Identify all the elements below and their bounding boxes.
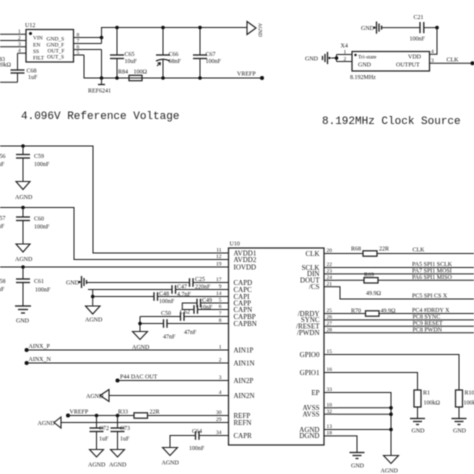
node AINX_P net label and wire to pin 1 <box>25 344 229 352</box>
svg-text:AGND: AGND <box>15 195 33 201</box>
svg-text:R68: R68 <box>351 247 361 253</box>
capacitor C67 <box>193 26 222 80</box>
ground AGND (group 2) <box>15 244 33 263</box>
svg-text:R10: R10 <box>465 390 474 396</box>
U12 pin 7 GND_F <box>47 38 102 48</box>
svg-text:25: 25 <box>327 308 333 314</box>
svg-text:R84: R84 <box>118 70 128 76</box>
wire C21 to X4 VDD <box>424 26 439 54</box>
U10 pin 1 AIN1P <box>216 345 254 355</box>
svg-text:3: 3 <box>431 58 434 64</box>
U12 pin 2 EN <box>0 35 40 48</box>
svg-text:C59: C59 <box>34 154 44 160</box>
op-amp U10 ADC body <box>229 242 325 446</box>
svg-text:C65: C65 <box>125 52 135 58</box>
resistor R69 49.9ohm in DOUT row <box>364 273 474 297</box>
wire /RESET row <box>337 321 474 327</box>
svg-text:4: 4 <box>431 49 434 55</box>
node VREFP net label on REFP row <box>66 410 134 418</box>
svg-text:PC4 #DRDY X: PC4 #DRDY X <box>412 308 450 314</box>
svg-text:C25: C25 <box>195 277 205 283</box>
svg-text:15: 15 <box>327 349 333 355</box>
resistor R83 label (cropped at left edge) <box>0 57 12 69</box>
ground GND (left of C21) <box>361 22 382 34</box>
svg-text:16: 16 <box>327 367 333 373</box>
U10 pin 7 CAPBP <box>216 311 256 321</box>
node AGND port arrow on pin 4 <box>86 390 229 402</box>
svg-text:C57: C57 <box>0 216 6 222</box>
svg-text:VDD: VDD <box>408 55 422 61</box>
wire CLK row <box>337 253 363 255</box>
svg-text:GND_F: GND_F <box>47 42 65 48</box>
svg-text:OUTPUT: OUTPUT <box>396 63 420 69</box>
svg-text:R1: R1 <box>423 390 430 396</box>
capacitor C56 label fragment (cropped) <box>0 154 6 168</box>
svg-text:28: 28 <box>327 327 333 333</box>
svg-text:C66: C66 <box>169 52 179 58</box>
U12 pin 1 VIN <box>0 29 43 42</box>
svg-text:10uF: 10uF <box>0 162 5 168</box>
svg-text:AGND: AGND <box>162 461 180 467</box>
svg-text:PA5 SPI1 SCLK: PA5 SPI1 SCLK <box>412 262 453 268</box>
U10 pin 2 AIN1N <box>216 358 255 368</box>
svg-text:68nF: 68nF <box>169 59 182 65</box>
wire AVDD2 net (group 2) <box>0 206 229 260</box>
svg-text:100nF: 100nF <box>410 37 426 43</box>
svg-text:100nF: 100nF <box>35 288 51 294</box>
ground tick under junction with REF6241 text <box>88 78 111 95</box>
svg-text:GND: GND <box>358 63 372 69</box>
capacitor C65 <box>110 26 138 80</box>
U10 pin 5 CAPP <box>216 298 252 308</box>
wire CAPBP row <box>140 316 181 318</box>
svg-text:PC8 PWDN: PC8 PWDN <box>413 327 443 333</box>
svg-text:AVSS: AVSS <box>303 411 320 419</box>
resistor R10 100k (right, clipped) <box>456 390 474 419</box>
X4 pin 3 OUTPUT wire and CLK label <box>430 58 474 66</box>
resistor R1 100k <box>414 390 441 419</box>
svg-text:EP: EP <box>311 389 319 397</box>
svg-text:PC9 RESET: PC9 RESET <box>413 321 444 327</box>
U10 pin 29 REFN <box>216 417 252 427</box>
svg-text:R33: R33 <box>118 410 128 416</box>
svg-text:GPIO0: GPIO0 <box>300 351 320 359</box>
svg-text:100nF: 100nF <box>34 162 50 168</box>
svg-text:DGND: DGND <box>299 432 319 440</box>
capacitor C49 on CAPP row <box>197 298 229 307</box>
svg-text:5: 5 <box>219 298 222 304</box>
svg-text:11: 11 <box>216 248 222 254</box>
node AGND port arrow (top rail) <box>247 22 262 38</box>
svg-text:AIN2P: AIN2P <box>234 377 254 385</box>
svg-text:10uF: 10uF <box>125 59 138 65</box>
wire OUT_S drop to bottom rail <box>84 55 262 78</box>
svg-text:1uF: 1uF <box>28 75 38 81</box>
ground AGND (EP rail) <box>381 456 399 474</box>
crystal oscillator X4 body <box>341 44 430 82</box>
svg-text:33: 33 <box>327 387 333 393</box>
wire SCLK row <box>337 262 474 268</box>
svg-text:18: 18 <box>327 431 333 437</box>
svg-text:3: 3 <box>18 42 21 48</box>
capacitor C51 on CAPBN row <box>163 319 229 340</box>
svg-text:4: 4 <box>18 48 21 54</box>
svg-text:2: 2 <box>344 56 347 62</box>
U10 pin 17 CAPD <box>216 277 253 287</box>
svg-text:9: 9 <box>219 284 222 290</box>
U12 pin 3 SS <box>0 42 39 55</box>
capacitor C50 on CAPBP row <box>161 311 229 336</box>
svg-text:/CS: /CS <box>309 283 320 291</box>
ground GND under R1 <box>410 419 425 435</box>
wire SYNC row <box>337 315 474 321</box>
svg-text:AGND: AGND <box>38 421 56 427</box>
U10 pin 16 GPIO1 <box>300 367 337 377</box>
svg-text:REFN: REFN <box>234 419 252 427</box>
svg-text:22: 22 <box>327 262 333 268</box>
svg-text:1uF: 1uF <box>99 437 109 443</box>
resistor R68 22R in CLK row <box>351 247 474 257</box>
svg-text:10nF: 10nF <box>200 305 213 311</box>
U10 pin 10 AVSS <box>303 403 338 413</box>
svg-text:20: 20 <box>327 248 333 254</box>
capacitor C61 <box>16 267 51 306</box>
capacitor C62 on CAPN row <box>180 305 229 316</box>
svg-text:SS: SS <box>33 49 39 55</box>
svg-text:23: 23 <box>327 269 333 275</box>
U12 pin 8 GND_S <box>47 32 102 42</box>
svg-text:OUT_S: OUT_S <box>47 55 64 61</box>
svg-text:U12: U12 <box>25 23 35 29</box>
svg-text:47nF: 47nF <box>163 335 176 341</box>
svg-text:CLK: CLK <box>413 248 426 254</box>
capacitor C68 on FILT pin <box>0 53 38 82</box>
svg-text:Tri-state: Tri-state <box>358 55 377 61</box>
svg-text:AIN1P: AIN1P <box>234 346 254 354</box>
svg-text:VREFP: VREFP <box>237 72 256 78</box>
X4 pin 1 <box>337 49 353 55</box>
capacitor C47 <box>172 285 229 299</box>
svg-text:4.7nF: 4.7nF <box>177 292 192 298</box>
U10 pin 23 DIN <box>307 269 337 279</box>
ground AGND (CAPB rows) <box>132 332 150 352</box>
wire CAPC row <box>88 289 172 291</box>
svg-text:VIN: VIN <box>33 36 43 42</box>
svg-text:4.096V Reference Voltage: 4.096V Reference Voltage <box>21 111 179 123</box>
svg-text:26: 26 <box>327 315 333 321</box>
ground AGND (group 1) <box>15 182 33 202</box>
svg-text:C60: C60 <box>34 217 44 223</box>
wire DOUT row <box>337 279 364 281</box>
node AGND port arrow on REFN row <box>38 417 229 428</box>
svg-text:24: 24 <box>327 275 333 281</box>
U10 pin 33 EP <box>311 387 337 397</box>
svg-text:AGND: AGND <box>85 318 103 324</box>
svg-text:13: 13 <box>327 424 333 430</box>
svg-text:17: 17 <box>216 277 222 283</box>
U10 pin 9 CAPC <box>216 284 253 294</box>
svg-text:10: 10 <box>327 403 333 409</box>
svg-text:C61: C61 <box>34 279 44 285</box>
U10 pin 25 /DRDY <box>298 308 337 318</box>
X4 pin 2 <box>335 55 352 63</box>
capacitor C48 <box>154 292 229 306</box>
svg-text:1: 1 <box>18 29 21 35</box>
svg-text:100nF: 100nF <box>159 299 175 305</box>
wire /DRDY row <box>337 313 366 315</box>
svg-text:100kΩ: 100kΩ <box>464 401 474 407</box>
wire AGND rail (cap network) <box>91 290 95 307</box>
node junction OUT_F on VREFP rail <box>100 76 104 80</box>
capacitor C64 on CAPR row <box>170 429 229 452</box>
svg-text:PC8 SYNC: PC8 SYNC <box>413 315 441 321</box>
svg-text:CAPR: CAPR <box>234 432 253 440</box>
op-amp U12 REF6241 body <box>25 23 74 62</box>
U10 pin 32 AVSS <box>303 409 338 419</box>
svg-text:AINX_P: AINX_P <box>29 344 51 350</box>
U10 pin 20 CLK <box>306 248 338 258</box>
svg-text:C62: C62 <box>180 310 190 316</box>
svg-text:CAPBN: CAPBN <box>234 320 257 328</box>
svg-text:27: 27 <box>327 321 333 327</box>
svg-text:VREFP: VREFP <box>70 410 89 416</box>
svg-text:5: 5 <box>77 50 80 56</box>
svg-text:100nF: 100nF <box>189 446 205 452</box>
svg-text:AGND: AGND <box>86 394 104 400</box>
ground AGND under C73 <box>109 450 127 469</box>
capacitor C59 <box>16 146 50 182</box>
svg-text:22R: 22R <box>379 247 389 253</box>
U10 pin 14 CAPI <box>216 291 251 301</box>
capacitor C21 <box>382 15 426 43</box>
U10 pin 18 DGND <box>299 431 337 441</box>
svg-text:GND: GND <box>305 57 319 63</box>
svg-text:AGND: AGND <box>15 257 33 263</box>
wire ground rail top (AGND rail) <box>100 28 247 44</box>
U10 pin 34 CAPR <box>216 430 253 440</box>
svg-text:FILT: FILT <box>33 56 45 62</box>
svg-text:CLK: CLK <box>306 250 320 258</box>
U10 pin 26 SYNC <box>301 315 337 325</box>
node VREFP net label <box>237 72 264 81</box>
U10 pin 15 GPIO0 <box>300 349 337 359</box>
U12 pin 6 OUT_F <box>48 44 102 54</box>
ground GND under DGND <box>350 453 365 470</box>
svg-text:GND: GND <box>361 26 375 32</box>
svg-text:GND: GND <box>66 281 80 287</box>
svg-text:C21: C21 <box>414 15 424 21</box>
svg-text:C73: C73 <box>120 426 130 432</box>
ground AGND (cap network rail) <box>85 306 103 324</box>
svg-text:8.192MHz: 8.192MHz <box>350 75 376 81</box>
svg-text:19: 19 <box>216 262 222 268</box>
svg-text:AINX_N: AINX_N <box>29 357 52 363</box>
svg-text:7: 7 <box>219 311 222 317</box>
wire OUT_F drop to bottom rail <box>101 50 103 79</box>
U10 pin 30 REFP <box>216 410 251 420</box>
svg-text:AGND: AGND <box>88 463 106 469</box>
svg-text:PA6 SPI1 MISO: PA6 SPI1 MISO <box>412 275 452 281</box>
svg-text:100nF: 100nF <box>34 225 50 231</box>
wire EP/AVSS/AGND to AGND rail <box>337 393 393 456</box>
wire GPIO0 to R10 <box>337 355 459 391</box>
U10 pin 24 DOUT <box>300 275 337 285</box>
U10 pin 22 SCLK <box>302 262 337 272</box>
U10 pin 19 IOVDD <box>216 262 257 272</box>
resistor R84 100ohm in VREFP rail <box>118 70 148 81</box>
resistor R33 22R in REFP row <box>118 410 229 419</box>
svg-text:CLK: CLK <box>447 58 460 64</box>
svg-text:GND: GND <box>351 464 365 470</box>
svg-text:PC5 SPI CS X: PC5 SPI CS X <box>412 294 448 300</box>
svg-text:AGND: AGND <box>381 469 399 474</box>
U10 pin 3 AIN2P <box>216 375 254 385</box>
capacitor C57 label fragment (cropped) <box>0 216 6 230</box>
U10 pin 27 /RESET <box>296 321 337 331</box>
svg-text:REF6241: REF6241 <box>88 89 111 95</box>
svg-text:/PWDN: /PWDN <box>297 329 320 337</box>
wire CAPBP to AGND drop <box>138 317 142 332</box>
wire GPIO1 to R1 <box>337 373 418 391</box>
ground GND under R10 <box>452 419 467 435</box>
svg-text:AIN2N: AIN2N <box>234 392 255 400</box>
U12 pin 4 FILT <box>18 48 45 62</box>
svg-text:12: 12 <box>216 254 222 260</box>
svg-text:C68: C68 <box>27 69 37 75</box>
svg-text:OUT_F: OUT_F <box>48 49 65 55</box>
capacitor C60 <box>16 208 50 245</box>
node P44 DAC OUT net label and wire to pin 3 <box>116 375 229 383</box>
svg-text:1uF: 1uF <box>120 437 130 443</box>
svg-text:C48: C48 <box>159 292 169 298</box>
U10 pin 12 AVDD2 <box>216 254 257 264</box>
capacitor C25 <box>190 277 229 291</box>
U10 pin 4 AIN2N <box>216 390 255 400</box>
svg-text:8: 8 <box>219 318 222 324</box>
wire CAPP row with bridge to CAPN <box>182 303 197 310</box>
svg-text:C50: C50 <box>161 311 171 317</box>
svg-text:1: 1 <box>344 49 347 55</box>
capacitor C66 (polarized) <box>156 26 182 80</box>
U10 pin 8 CAPBN <box>216 318 257 328</box>
svg-text:100kΩ: 100kΩ <box>424 401 441 407</box>
svg-text:32: 32 <box>327 409 333 415</box>
svg-text:P44 DAC OUT: P44 DAC OUT <box>120 375 158 381</box>
svg-text:100nF: 100nF <box>206 59 222 65</box>
ground GND bars (group 3) <box>15 306 31 325</box>
svg-text:GND: GND <box>453 429 467 435</box>
svg-text:47nF: 47nF <box>184 330 197 336</box>
wire /CS row with jog down <box>337 287 474 300</box>
U10 pin 21 /CS <box>309 281 337 291</box>
svg-text:49.9Ω: 49.9Ω <box>366 291 382 297</box>
svg-text:20kΩ: 20kΩ <box>0 63 12 69</box>
svg-text:10uF: 10uF <box>0 287 5 293</box>
svg-text:C47: C47 <box>177 285 187 291</box>
capacitor C72 on REFP <box>90 414 110 450</box>
ground GND (left of X4) <box>305 52 337 64</box>
svg-text:2: 2 <box>18 35 21 41</box>
svg-text:C58: C58 <box>0 279 6 285</box>
svg-text:C56: C56 <box>0 154 6 160</box>
ground AGND under C64 <box>162 448 180 467</box>
capacitor C73 on REFP <box>111 414 131 450</box>
svg-text:IOVDD: IOVDD <box>234 263 257 271</box>
wire CAPBN row <box>140 323 164 325</box>
U12 pin 5 OUT_S <box>47 50 84 61</box>
U10 pin 28 /PWDN <box>297 327 337 337</box>
wire DIN row <box>337 269 474 275</box>
svg-text:14: 14 <box>216 291 222 297</box>
wire DGND to GND <box>337 436 357 453</box>
svg-text:R70: R70 <box>351 309 361 315</box>
svg-text:EN: EN <box>33 42 40 48</box>
wire /PWDN row <box>337 327 474 333</box>
svg-text:8.192MHz Clock Source: 8.192MHz Clock Source <box>322 116 461 128</box>
svg-text:R69: R69 <box>364 273 374 279</box>
svg-text:10uF: 10uF <box>0 224 5 230</box>
wire CAPD row <box>87 282 190 284</box>
svg-text:C72: C72 <box>99 426 109 432</box>
U10 pin 13 AGND <box>299 424 337 434</box>
svg-text:GND: GND <box>16 319 30 325</box>
svg-text:GPIO1: GPIO1 <box>300 369 320 377</box>
ground GND earth (row CAPD) <box>66 276 87 288</box>
svg-text:C67: C67 <box>206 52 216 58</box>
svg-text:GND: GND <box>412 429 426 435</box>
svg-text:21: 21 <box>327 281 333 287</box>
U10 pin 6 CAPN <box>216 304 253 314</box>
svg-text:U10: U10 <box>230 242 240 248</box>
U10 pin 11 AVDD1 <box>216 248 257 258</box>
wire IOVDD net (group 3) <box>0 265 229 269</box>
node AINX_N net label and wire to pin 2 <box>25 357 229 365</box>
svg-text:AGND: AGND <box>109 463 127 469</box>
wire AVDD1 net (group 1) <box>0 144 229 253</box>
svg-text:C64: C64 <box>192 429 202 435</box>
wire CAPI row <box>93 296 154 298</box>
resistor R70 49.9ohm in DRDY row <box>351 308 474 316</box>
svg-text:AGND: AGND <box>257 23 262 37</box>
svg-text:PA7 SPI1 MOSI: PA7 SPI1 MOSI <box>412 269 452 275</box>
svg-text:C49: C49 <box>202 298 212 304</box>
ground AGND under C72 <box>88 450 106 469</box>
svg-text:AIN1N: AIN1N <box>234 359 255 367</box>
svg-text:100Ω: 100Ω <box>134 70 148 76</box>
svg-text:22R: 22R <box>150 410 160 416</box>
capacitor C58 label fragment (cropped) <box>0 279 6 293</box>
svg-text:6: 6 <box>219 304 222 310</box>
